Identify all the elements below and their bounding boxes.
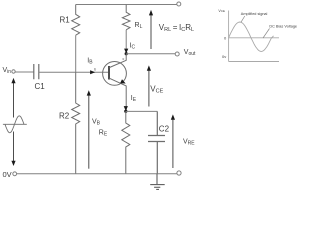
transistor Q1 base bar bbox=[108, 66, 110, 80]
svg-text:VCE: VCE bbox=[218, 9, 225, 13]
ground bbox=[150, 174, 165, 190]
resistor RL bbox=[122, 5, 130, 30]
svg-text:IE: IE bbox=[131, 95, 137, 103]
svg-text:b: b bbox=[94, 67, 96, 71]
Vin terminal bbox=[12, 70, 15, 73]
output waveform graph axis bbox=[229, 11, 279, 62]
svg-text:VB: VB bbox=[92, 119, 101, 127]
transistor emitter lead with arrow bbox=[110, 78, 127, 111]
svg-text:IB: IB bbox=[87, 58, 93, 66]
bottom rail wire bbox=[17, 173, 177, 175]
svg-text:IC: IC bbox=[130, 42, 136, 50]
svg-text:VCE: VCE bbox=[150, 85, 163, 95]
node collector junction bbox=[125, 52, 128, 55]
voltage arrow VCE bbox=[148, 69, 150, 107]
resistor R2 bbox=[72, 72, 80, 173]
transistor collector lead bbox=[110, 54, 127, 68]
transistor Q1 body bbox=[103, 62, 127, 86]
svg-text:VRL = ICRL: VRL = ICRL bbox=[159, 23, 194, 33]
node emitter junction bbox=[124, 110, 127, 113]
top supply rail wire bbox=[76, 4, 177, 6]
resistor RE bbox=[122, 111, 130, 174]
svg-text:Vout: Vout bbox=[184, 49, 196, 57]
svg-text:R2: R2 bbox=[59, 112, 70, 121]
svg-text:R1: R1 bbox=[60, 16, 71, 25]
current arrow Ic head bbox=[124, 49, 128, 54]
wire R1 bottom to base node bbox=[75, 35, 77, 72]
svg-text:RL: RL bbox=[135, 22, 143, 30]
svg-text:0V: 0V bbox=[3, 170, 12, 179]
output waveform sine bbox=[229, 22, 274, 51]
voltage arrow VB bbox=[88, 95, 90, 169]
svg-text:c: c bbox=[123, 57, 125, 61]
svg-text:0v: 0v bbox=[222, 54, 226, 59]
resistor R1 bbox=[72, 5, 80, 36]
VCC terminal bbox=[177, 2, 181, 6]
svg-text:Vin: Vin bbox=[3, 67, 12, 75]
svg-text:0: 0 bbox=[224, 35, 227, 40]
input signal sine symbol axis bbox=[3, 123, 27, 125]
input signal annotation arrow up bbox=[13, 81, 15, 118]
svg-text:RE: RE bbox=[99, 130, 108, 138]
voltage arrow VRL bbox=[150, 13, 152, 49]
current arrow Ib head bbox=[90, 70, 95, 74]
current arrow Ie head bbox=[124, 106, 128, 111]
svg-text:C2: C2 bbox=[159, 125, 170, 134]
svg-text:DC Bias Voltage: DC Bias Voltage bbox=[269, 24, 297, 28]
voltage arrow VRE bbox=[172, 118, 174, 169]
0V terminal bbox=[13, 172, 17, 176]
capacitor C1 bbox=[34, 64, 39, 79]
wire emitter node to C2 bbox=[126, 110, 158, 112]
svg-text:VRE: VRE bbox=[183, 139, 195, 147]
Vout terminal bbox=[175, 52, 179, 56]
svg-text:C1: C1 bbox=[35, 82, 46, 91]
capacitor C2 bbox=[148, 111, 165, 173]
output waveform DC bias line bbox=[229, 37, 279, 39]
bottom right terminal bbox=[177, 171, 181, 175]
wire Vin to C1 bbox=[15, 71, 34, 73]
input signal annotation arrow down bbox=[13, 132, 15, 163]
wire RL to collector junction bbox=[125, 30, 127, 54]
input signal sine wave bbox=[5, 116, 24, 133]
wire to Vout bbox=[126, 53, 175, 55]
graph pointer amplified signal bbox=[241, 16, 245, 22]
svg-text:Amplified signal: Amplified signal bbox=[241, 12, 268, 16]
wire C1 to base bbox=[39, 71, 109, 73]
graph pointer DC bias bbox=[263, 29, 270, 39]
